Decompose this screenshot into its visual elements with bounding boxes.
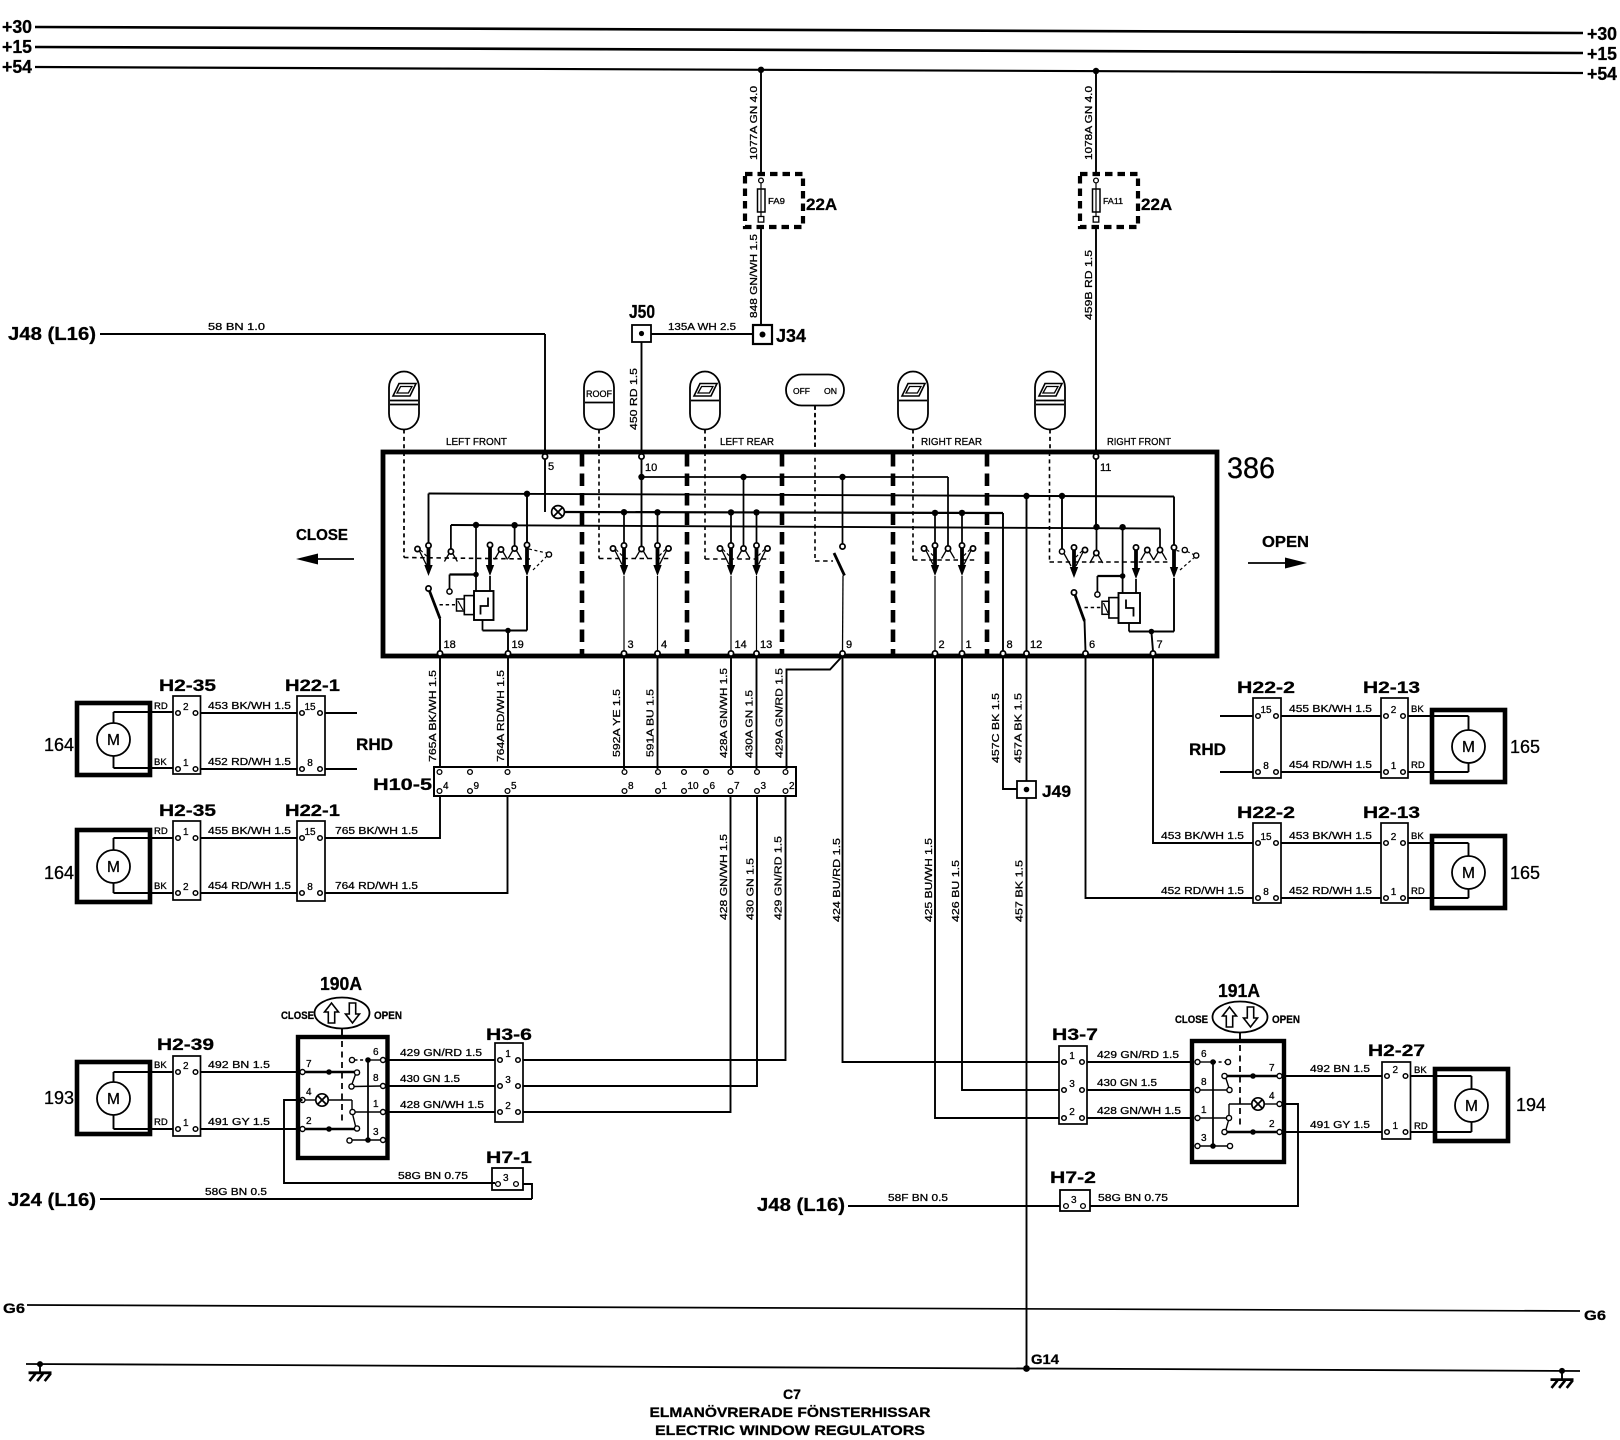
svg-text:6: 6 bbox=[1201, 1049, 1207, 1060]
svg-text:492 BN 1.5: 492 BN 1.5 bbox=[1310, 1063, 1370, 1075]
svg-text:2: 2 bbox=[183, 882, 189, 893]
svg-text:457 BK 1.5: 457 BK 1.5 bbox=[1014, 860, 1026, 922]
wire 457C BK 1.5 bbox=[1003, 656, 1017, 789]
wire 429 GN/RD 1.5 to 191A bbox=[1087, 1061, 1192, 1063]
svg-text:+54: +54 bbox=[1587, 64, 1617, 84]
wire 453 BK/WH 1.5 lower-right bbox=[1281, 842, 1381, 844]
pin 8 bbox=[1000, 651, 1005, 656]
svg-text:8: 8 bbox=[307, 758, 313, 769]
svg-text:8: 8 bbox=[628, 781, 634, 792]
svg-text:J49: J49 bbox=[1042, 782, 1071, 801]
svg-text:1: 1 bbox=[505, 1049, 511, 1060]
svg-text:10: 10 bbox=[688, 781, 700, 792]
pin 3 bbox=[621, 651, 626, 656]
svg-text:8: 8 bbox=[1201, 1077, 1207, 1088]
svg-text:M: M bbox=[107, 1091, 120, 1108]
pin 11 bbox=[1093, 454, 1098, 459]
wire 765 BK/WH 1.5 bbox=[325, 796, 440, 838]
wire 592A YE 1.5 bbox=[623, 656, 625, 769]
svg-text:M: M bbox=[1462, 865, 1475, 882]
svg-text:6: 6 bbox=[373, 1047, 379, 1058]
svg-text:ELMANÖVRERADE FÖNSTERHISSAR: ELMANÖVRERADE FÖNSTERHISSAR bbox=[650, 1404, 931, 1420]
svg-text:CLOSE: CLOSE bbox=[1175, 1014, 1208, 1026]
svg-text:1: 1 bbox=[1391, 887, 1397, 898]
wire 450 RD 1.5 bbox=[641, 342, 643, 452]
svg-text:H2-35: H2-35 bbox=[159, 676, 216, 695]
svg-text:H7-2: H7-2 bbox=[1050, 1168, 1096, 1187]
wire 430 GN 1.5 to 191A bbox=[1087, 1089, 1192, 1091]
svg-text:2: 2 bbox=[789, 781, 795, 792]
svg-text:RIGHT FRONT: RIGHT FRONT bbox=[1107, 436, 1172, 448]
svg-text:C7: C7 bbox=[783, 1386, 801, 1402]
svg-text:452 RD/WH 1.5: 452 RD/WH 1.5 bbox=[1289, 885, 1372, 897]
internal bus A bbox=[642, 476, 949, 478]
svg-text:2: 2 bbox=[1392, 1065, 1398, 1076]
svg-text:2: 2 bbox=[505, 1101, 511, 1112]
fuse FA9 22A bbox=[745, 174, 803, 227]
svg-text:457C BK 1.5: 457C BK 1.5 bbox=[990, 693, 1002, 763]
bus G6 bbox=[27, 1305, 1580, 1311]
svg-text:+15: +15 bbox=[1587, 44, 1617, 64]
svg-text:OPEN: OPEN bbox=[1272, 1014, 1300, 1026]
wire 428A GN/WH 1.5 bbox=[730, 656, 732, 769]
pin 19 bbox=[505, 651, 510, 656]
pin 18 bbox=[437, 651, 442, 656]
svg-text:H10-5: H10-5 bbox=[373, 775, 432, 794]
right rear switch contacts bbox=[947, 477, 949, 546]
right rear dashed actuator line bbox=[912, 452, 914, 560]
wire 430 GN 1.5 vertical bbox=[523, 796, 757, 1086]
wire 452 RD/WH 1.5 from pin6 bbox=[1086, 656, 1254, 898]
pin 9 bbox=[840, 651, 845, 656]
svg-text:1: 1 bbox=[966, 639, 972, 651]
svg-text:424 BU/RD 1.5: 424 BU/RD 1.5 bbox=[831, 838, 843, 922]
ground symbol left bbox=[37, 1361, 43, 1367]
node on +54 right bbox=[1093, 68, 1099, 74]
svg-text:454 RD/WH 1.5: 454 RD/WH 1.5 bbox=[1289, 759, 1372, 771]
wire 426 BU 1.5 bbox=[962, 656, 1059, 1090]
svg-text:18: 18 bbox=[444, 639, 456, 651]
switch symbol roof bbox=[584, 372, 614, 430]
wire 424 BU/RD 1.5 bbox=[843, 656, 1060, 1062]
svg-text:6: 6 bbox=[1089, 639, 1095, 651]
wire 491 GY 1.5 left bbox=[201, 1128, 299, 1130]
svg-text:58G BN 0.75: 58G BN 0.75 bbox=[1098, 1192, 1168, 1204]
svg-text:58G BN 0.75: 58G BN 0.75 bbox=[398, 1170, 468, 1182]
svg-text:2: 2 bbox=[939, 639, 945, 651]
svg-text:M: M bbox=[107, 732, 120, 749]
junction J49 bbox=[1017, 781, 1036, 798]
svg-text:386: 386 bbox=[1227, 452, 1275, 485]
svg-text:453 BK/WH 1.5: 453 BK/WH 1.5 bbox=[1289, 830, 1372, 842]
fuse FA11 22A bbox=[1080, 174, 1138, 227]
left front lever switch to pin 18 bbox=[426, 586, 431, 591]
svg-text:8: 8 bbox=[373, 1073, 379, 1084]
svg-text:FA11: FA11 bbox=[1103, 196, 1123, 206]
svg-text:19: 19 bbox=[512, 639, 524, 651]
svg-text:459B RD 1.5: 459B RD 1.5 bbox=[1083, 250, 1095, 320]
svg-text:425 BU/WH 1.5: 425 BU/WH 1.5 bbox=[923, 838, 935, 922]
svg-text:RD: RD bbox=[154, 1117, 168, 1128]
wire 425 BU/WH 1.5 bbox=[935, 656, 1059, 1118]
wire 58G BN 0.5 bbox=[100, 1198, 532, 1200]
wire 492 BN 1.5 right bbox=[1284, 1075, 1382, 1077]
svg-text:3: 3 bbox=[628, 639, 634, 651]
svg-text:429 GN/RD 1.5: 429 GN/RD 1.5 bbox=[400, 1047, 482, 1059]
svg-text:765 BK/WH 1.5: 765 BK/WH 1.5 bbox=[335, 825, 418, 837]
off-on dashed actuator line bbox=[814, 406, 816, 561]
wire 135A WH 2.5 bbox=[651, 333, 753, 335]
svg-text:58F BN 0.5: 58F BN 0.5 bbox=[888, 1192, 948, 1204]
svg-text:491 GY 1.5: 491 GY 1.5 bbox=[1310, 1119, 1370, 1131]
node G14 bbox=[1023, 1365, 1030, 1372]
svg-text:M: M bbox=[1465, 1098, 1478, 1115]
wire 429 GN/RD 1.5 to H3-6 bbox=[388, 1059, 496, 1061]
pin 14 bbox=[728, 651, 733, 656]
wire 429 GN/RD 1.5 vertical bbox=[523, 796, 786, 1060]
svg-text:3: 3 bbox=[1069, 1079, 1075, 1090]
wire 430A GN 1.5 bbox=[756, 656, 758, 769]
svg-text:1: 1 bbox=[1392, 1121, 1398, 1132]
svg-text:165: 165 bbox=[1510, 737, 1540, 757]
svg-text:H3-6: H3-6 bbox=[486, 1025, 532, 1044]
left rear dashed actuator line bbox=[704, 452, 706, 559]
pin 11 internal wire bbox=[1095, 459, 1097, 527]
svg-text:LEFT FRONT: LEFT FRONT bbox=[446, 436, 508, 448]
pin 12 internal wire bbox=[1026, 496, 1028, 651]
wire 454 RD/WH 1.5 upper-right bbox=[1281, 771, 1381, 773]
wire 58G BN 0.75 from 190A pin4 bbox=[284, 1100, 495, 1183]
svg-text:2: 2 bbox=[1069, 1107, 1075, 1118]
roof dashed actuator line bbox=[598, 452, 600, 559]
internal bus C with lamp bbox=[544, 459, 546, 512]
svg-text:RIGHT REAR: RIGHT REAR bbox=[921, 436, 982, 448]
wire 1077A GN 4.0 bbox=[760, 70, 762, 174]
svg-text:164: 164 bbox=[44, 735, 74, 755]
svg-text:194: 194 bbox=[1516, 1095, 1546, 1115]
svg-text:165: 165 bbox=[1510, 863, 1540, 883]
wire 459B RD 1.5 bbox=[1095, 227, 1097, 452]
junction J34 bbox=[753, 325, 772, 344]
svg-text:3: 3 bbox=[503, 1173, 509, 1184]
ground rail bbox=[26, 1364, 1580, 1371]
wire 764 RD/WH 1.5 bbox=[325, 796, 508, 893]
pin 7 bbox=[1150, 651, 1155, 656]
svg-text:15: 15 bbox=[1260, 832, 1272, 843]
svg-text:492 BN 1.5: 492 BN 1.5 bbox=[208, 1059, 270, 1071]
wire 765A BK/WH 1.5 bbox=[439, 656, 441, 767]
wire 428 GN/WH 1.5 vertical bbox=[523, 796, 731, 1112]
pin 1 bbox=[959, 651, 964, 656]
svg-text:591A BU 1.5: 591A BU 1.5 bbox=[645, 689, 657, 757]
wire 429A GN/RD 1.5 bbox=[787, 656, 843, 769]
switch 191A close-open symbol bbox=[1213, 1002, 1268, 1033]
svg-text:430 GN 1.5: 430 GN 1.5 bbox=[1097, 1077, 1157, 1089]
switch symbol left rear window bbox=[690, 372, 720, 430]
svg-text:RD: RD bbox=[154, 826, 168, 837]
svg-text:G14: G14 bbox=[1031, 1352, 1060, 1367]
internal bus D bbox=[451, 525, 1160, 529]
switch symbol right front window bbox=[1035, 372, 1065, 430]
svg-text:426 BU 1.5: 426 BU 1.5 bbox=[950, 860, 962, 922]
svg-text:452 RD/WH 1.5: 452 RD/WH 1.5 bbox=[1161, 885, 1244, 897]
svg-text:H3-7: H3-7 bbox=[1052, 1025, 1098, 1044]
svg-text:428 GN/WH 1.5: 428 GN/WH 1.5 bbox=[400, 1099, 484, 1111]
right front switch contacts bbox=[1061, 496, 1063, 549]
svg-text:764A RD/WH 1.5: 764A RD/WH 1.5 bbox=[495, 670, 507, 762]
motor 193 bbox=[77, 1062, 150, 1134]
switch 190A lower contact bbox=[305, 1128, 354, 1130]
svg-text:H2-27: H2-27 bbox=[1368, 1041, 1425, 1060]
svg-text:H2-13: H2-13 bbox=[1363, 803, 1420, 822]
svg-text:7: 7 bbox=[734, 781, 740, 792]
partition dashed lines inside 386 bbox=[580, 454, 585, 654]
svg-text:1: 1 bbox=[373, 1099, 379, 1110]
svg-text:22A: 22A bbox=[806, 195, 837, 214]
relay in right front bbox=[1119, 593, 1141, 623]
svg-text:OFF: OFF bbox=[793, 386, 810, 396]
wire 1078A GN 4.0 bbox=[1095, 71, 1097, 174]
svg-text:H2-35: H2-35 bbox=[159, 801, 216, 820]
svg-text:M: M bbox=[1462, 739, 1475, 756]
relay in left front bbox=[474, 591, 494, 620]
svg-text:BK: BK bbox=[1411, 704, 1424, 715]
svg-text:3: 3 bbox=[761, 781, 767, 792]
svg-text:15: 15 bbox=[1260, 705, 1272, 716]
right front lever switch to pin 6 bbox=[1071, 590, 1076, 595]
wire 591A BU 1.5 bbox=[657, 656, 659, 769]
svg-text:15: 15 bbox=[304, 702, 316, 713]
ground symbol right bbox=[1559, 1368, 1565, 1374]
svg-text:22A: 22A bbox=[1141, 195, 1172, 214]
wire 457A BK 1.5 bbox=[1026, 656, 1028, 781]
svg-text:2: 2 bbox=[183, 1061, 189, 1072]
svg-text:H2-39: H2-39 bbox=[157, 1035, 214, 1054]
left front switch contacts bbox=[428, 494, 430, 544]
svg-text:OPEN: OPEN bbox=[1262, 534, 1309, 551]
svg-text:ROOF: ROOF bbox=[586, 389, 612, 400]
svg-text:2: 2 bbox=[1391, 832, 1397, 843]
svg-text:454 RD/WH 1.5: 454 RD/WH 1.5 bbox=[208, 880, 291, 892]
svg-text:10: 10 bbox=[645, 462, 657, 474]
right front bus D corner contact bbox=[1159, 529, 1161, 548]
svg-text:3: 3 bbox=[373, 1127, 379, 1138]
switch symbol right rear window bbox=[898, 372, 928, 430]
motor 165 upper bbox=[1432, 710, 1505, 782]
svg-text:BK: BK bbox=[1414, 1065, 1427, 1076]
svg-text:7: 7 bbox=[1157, 639, 1163, 651]
svg-text:430 GN 1.5: 430 GN 1.5 bbox=[745, 858, 757, 920]
svg-text:428 GN/WH 1.5: 428 GN/WH 1.5 bbox=[718, 834, 730, 920]
svg-text:58 BN 1.0: 58 BN 1.0 bbox=[208, 321, 265, 333]
svg-text:4: 4 bbox=[306, 1087, 312, 1098]
svg-text:450 RD 1.5: 450 RD 1.5 bbox=[628, 368, 640, 430]
svg-text:BK: BK bbox=[154, 881, 167, 892]
pin 6 bbox=[1083, 651, 1088, 656]
svg-text:RD: RD bbox=[1411, 886, 1425, 897]
pin 10 bbox=[639, 454, 644, 459]
switch 190A body bbox=[298, 1037, 388, 1158]
svg-text:BK: BK bbox=[1411, 831, 1424, 842]
svg-text:RD: RD bbox=[1411, 760, 1425, 771]
wire 454 RD/WH 1.5 lower-left bbox=[201, 892, 298, 894]
svg-text:3: 3 bbox=[505, 1075, 511, 1086]
svg-text:491 GY 1.5: 491 GY 1.5 bbox=[208, 1116, 270, 1128]
svg-text:3: 3 bbox=[1071, 1195, 1077, 1206]
motor 164 lower bbox=[77, 830, 150, 902]
svg-text:H2-13: H2-13 bbox=[1363, 678, 1420, 697]
wire 491 GY 1.5 right bbox=[1284, 1131, 1382, 1133]
wire stubs RHD upper-left bbox=[325, 712, 357, 714]
switch 191A lower contact bbox=[1227, 1131, 1277, 1133]
wire 453 BK/WH 1.5 upper-left bbox=[201, 712, 298, 714]
wire 848 GN/WH 1.5 bbox=[760, 227, 762, 325]
svg-text:453 BK/WH 1.5: 453 BK/WH 1.5 bbox=[208, 700, 291, 712]
svg-text:6: 6 bbox=[710, 781, 716, 792]
switch 190A close-open symbol bbox=[315, 998, 370, 1029]
wire 453 BK/WH 1.5 from pin7 bbox=[1153, 656, 1253, 843]
svg-text:J34: J34 bbox=[776, 326, 806, 346]
svg-text:+54: +54 bbox=[2, 57, 32, 77]
svg-text:M: M bbox=[107, 859, 120, 876]
svg-text:457A BK 1.5: 457A BK 1.5 bbox=[1013, 693, 1025, 763]
motor 165 lower bbox=[1432, 836, 1505, 908]
svg-text:164: 164 bbox=[44, 863, 74, 883]
svg-text:191A: 191A bbox=[1218, 981, 1260, 1001]
svg-text:190A: 190A bbox=[320, 974, 362, 994]
svg-text:452 RD/WH 1.5: 452 RD/WH 1.5 bbox=[208, 756, 291, 768]
svg-text:J48 (L16): J48 (L16) bbox=[757, 1195, 845, 1215]
left front relay contact wiper bbox=[487, 542, 492, 547]
switch 190A contacts bbox=[305, 1071, 354, 1073]
svg-text:455 BK/WH 1.5: 455 BK/WH 1.5 bbox=[208, 825, 291, 837]
svg-text:15: 15 bbox=[304, 827, 316, 838]
svg-text:58G BN 0.5: 58G BN 0.5 bbox=[205, 1186, 267, 1198]
svg-text:9: 9 bbox=[846, 639, 852, 651]
wire 764A RD/WH 1.5 bbox=[507, 656, 509, 767]
svg-text:LEFT REAR: LEFT REAR bbox=[720, 436, 774, 448]
svg-text:1: 1 bbox=[183, 1118, 189, 1129]
right front dashed actuator line bbox=[1049, 452, 1051, 562]
svg-text:429 GN/RD 1.5: 429 GN/RD 1.5 bbox=[773, 836, 785, 920]
svg-text:1: 1 bbox=[1391, 761, 1397, 772]
left rear switch contacts bbox=[743, 477, 745, 546]
svg-text:135A WH 2.5: 135A WH 2.5 bbox=[668, 321, 736, 333]
svg-text:3: 3 bbox=[1201, 1133, 1207, 1144]
pin 2 bbox=[932, 651, 937, 656]
svg-text:+30: +30 bbox=[1587, 24, 1617, 44]
svg-text:RD: RD bbox=[1414, 1121, 1428, 1132]
wire 58F BN 0.5 bbox=[848, 1205, 1060, 1207]
svg-text:H7-1: H7-1 bbox=[486, 1148, 532, 1167]
svg-text:455 BK/WH 1.5: 455 BK/WH 1.5 bbox=[1289, 703, 1372, 715]
svg-text:2: 2 bbox=[1391, 705, 1397, 716]
right front bus B corner contact bbox=[1173, 497, 1175, 546]
svg-text:1: 1 bbox=[183, 758, 189, 769]
svg-text:7: 7 bbox=[306, 1059, 312, 1070]
wire 430 GN 1.5 to H3-6 bbox=[388, 1085, 496, 1087]
svg-text:9: 9 bbox=[474, 781, 480, 792]
svg-text:1: 1 bbox=[183, 827, 189, 838]
svg-text:2: 2 bbox=[306, 1116, 312, 1127]
pin 5 bbox=[542, 454, 547, 459]
svg-text:CLOSE: CLOSE bbox=[296, 527, 348, 544]
svg-text:765A BK/WH 1.5: 765A BK/WH 1.5 bbox=[427, 670, 439, 762]
svg-text:428A GN/WH 1.5: 428A GN/WH 1.5 bbox=[718, 668, 730, 758]
svg-text:2: 2 bbox=[183, 702, 189, 713]
svg-text:12: 12 bbox=[1030, 639, 1042, 651]
switch 191A lamp bbox=[1264, 1103, 1277, 1105]
svg-text:H22-1: H22-1 bbox=[285, 676, 340, 695]
relay output to pin 7 bbox=[1128, 623, 1130, 632]
relay output to pin 19 bbox=[482, 620, 484, 631]
left front dashed actuator line bbox=[403, 452, 405, 558]
wire 452 RD/WH 1.5 lower-right bbox=[1281, 897, 1381, 899]
switch unit 386 outline bbox=[383, 452, 1217, 656]
internal bus B bbox=[429, 494, 1175, 497]
svg-text:G6: G6 bbox=[1584, 1307, 1606, 1323]
svg-text:OPEN: OPEN bbox=[374, 1010, 402, 1022]
svg-text:5: 5 bbox=[511, 781, 517, 792]
svg-text:428 GN/WH 1.5: 428 GN/WH 1.5 bbox=[1097, 1105, 1181, 1117]
svg-text:FA9: FA9 bbox=[768, 196, 785, 206]
svg-text:H22-1: H22-1 bbox=[285, 801, 340, 820]
motor 164 upper bbox=[77, 703, 150, 775]
svg-text:8: 8 bbox=[1007, 639, 1013, 651]
svg-text:592A YE 1.5: 592A YE 1.5 bbox=[611, 689, 623, 757]
svg-text:RHD: RHD bbox=[1189, 741, 1226, 759]
wire 457 BK 1.5 to G14 bbox=[1026, 798, 1028, 1369]
svg-text:13: 13 bbox=[760, 639, 772, 651]
svg-text:1077A GN 4.0: 1077A GN 4.0 bbox=[748, 86, 760, 160]
svg-text:+15: +15 bbox=[2, 37, 32, 57]
bus +30 bbox=[35, 27, 1583, 33]
svg-text:BK: BK bbox=[154, 757, 167, 768]
svg-text:429 GN/RD 1.5: 429 GN/RD 1.5 bbox=[1097, 1049, 1179, 1061]
svg-text:G6: G6 bbox=[3, 1300, 25, 1316]
wire 58G BN 0.75 from 191A pin4 bbox=[1090, 1104, 1298, 1206]
right front relay feed bbox=[1122, 528, 1124, 574]
svg-text:2: 2 bbox=[1269, 1119, 1275, 1130]
wire 455 BK/WH 1.5 upper-right bbox=[1281, 715, 1381, 717]
wire stubs RHD upper-right bbox=[1220, 715, 1253, 717]
svg-text:1: 1 bbox=[662, 781, 668, 792]
wire 428 GN/WH 1.5 to H3-6 bbox=[388, 1111, 496, 1113]
wire 452 RD/WH 1.5 upper-left bbox=[201, 768, 298, 770]
node on +54 bbox=[758, 67, 764, 73]
svg-text:5: 5 bbox=[548, 461, 554, 473]
wire 58 BN 1.0 bbox=[100, 333, 545, 335]
svg-text:J50: J50 bbox=[629, 302, 655, 322]
pin 12 bbox=[1024, 651, 1029, 656]
svg-text:RD: RD bbox=[154, 701, 168, 712]
motor 194 bbox=[1435, 1069, 1508, 1141]
svg-text:1: 1 bbox=[1201, 1105, 1207, 1116]
svg-text:4: 4 bbox=[1269, 1091, 1275, 1102]
svg-text:J24 (L16): J24 (L16) bbox=[8, 1190, 96, 1210]
pin 13 bbox=[754, 651, 759, 656]
svg-text:8: 8 bbox=[1263, 761, 1269, 772]
svg-text:11: 11 bbox=[1100, 462, 1111, 474]
svg-text:CLOSE: CLOSE bbox=[281, 1010, 314, 1022]
switch 191A contacts bbox=[1200, 1061, 1213, 1063]
pin 4 bbox=[655, 651, 660, 656]
svg-text:193: 193 bbox=[44, 1088, 74, 1108]
bus +15 bbox=[35, 47, 1583, 53]
switch 191A body bbox=[1192, 1041, 1284, 1162]
svg-text:H22-2: H22-2 bbox=[1237, 803, 1295, 822]
svg-text:J48 (L16): J48 (L16) bbox=[8, 324, 96, 344]
